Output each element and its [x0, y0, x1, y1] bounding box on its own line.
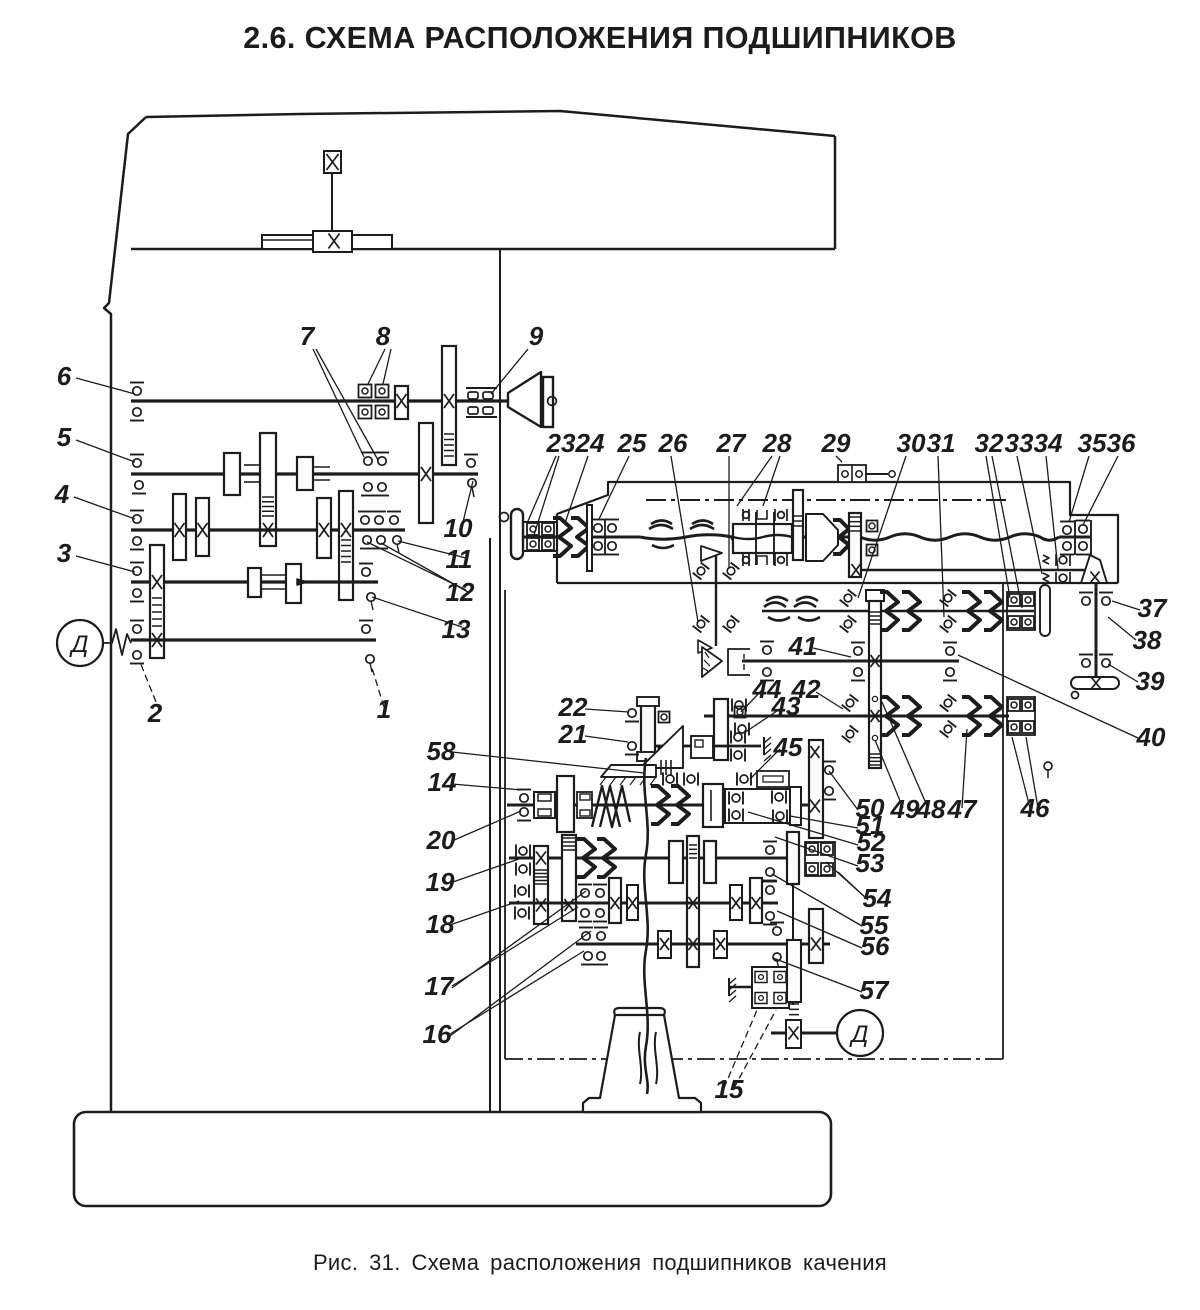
svg-text:17: 17 — [425, 971, 455, 1001]
svg-text:36: 36 — [1107, 428, 1136, 458]
svg-text:49: 49 — [890, 794, 920, 824]
svg-text:8: 8 — [376, 321, 391, 351]
svg-text:58: 58 — [427, 736, 456, 766]
svg-text:23: 23 — [546, 428, 576, 458]
svg-text:Д: Д — [69, 631, 89, 658]
svg-text:41: 41 — [788, 631, 818, 661]
svg-text:33: 33 — [1005, 428, 1034, 458]
svg-text:56: 56 — [861, 931, 890, 961]
svg-text:6: 6 — [57, 361, 72, 391]
svg-text:27: 27 — [716, 428, 747, 458]
svg-text:21: 21 — [558, 719, 588, 749]
svg-text:18: 18 — [426, 909, 455, 939]
svg-text:1: 1 — [377, 694, 391, 724]
svg-text:40: 40 — [1136, 722, 1166, 752]
svg-text:2.6. СХЕМА РАСПОЛОЖЕНИЯ ПОДШИП: 2.6. СХЕМА РАСПОЛОЖЕНИЯ ПОДШИПНИКОВ — [243, 21, 956, 55]
svg-text:7: 7 — [300, 321, 316, 351]
svg-text:3: 3 — [57, 538, 72, 568]
svg-text:30: 30 — [897, 428, 926, 458]
svg-text:4: 4 — [54, 479, 70, 509]
svg-text:19: 19 — [426, 867, 455, 897]
svg-text:44: 44 — [752, 674, 782, 704]
svg-text:48: 48 — [916, 794, 946, 824]
svg-text:35: 35 — [1078, 428, 1107, 458]
svg-text:45: 45 — [773, 732, 803, 762]
svg-text:13: 13 — [442, 614, 471, 644]
svg-text:39: 39 — [1136, 666, 1165, 696]
svg-text:57: 57 — [860, 975, 890, 1005]
svg-text:37: 37 — [1138, 593, 1168, 623]
svg-text:34: 34 — [1034, 428, 1063, 458]
svg-text:10: 10 — [444, 513, 473, 543]
svg-text:14: 14 — [428, 767, 457, 797]
svg-text:16: 16 — [423, 1019, 452, 1049]
svg-text:11: 11 — [446, 544, 473, 574]
svg-text:29: 29 — [821, 428, 851, 458]
svg-text:26: 26 — [658, 428, 688, 458]
svg-text:38: 38 — [1133, 625, 1162, 655]
svg-text:25: 25 — [617, 428, 647, 458]
svg-text:46: 46 — [1020, 793, 1050, 823]
svg-text:54: 54 — [863, 883, 892, 913]
svg-text:24: 24 — [575, 428, 605, 458]
svg-text:53: 53 — [856, 848, 885, 878]
svg-text:5: 5 — [57, 422, 72, 452]
svg-text:20: 20 — [426, 825, 456, 855]
svg-text:22: 22 — [558, 692, 588, 722]
svg-text:2: 2 — [147, 698, 163, 728]
svg-text:Рис. 31. Схема расположения по: Рис. 31. Схема расположения подшипников … — [313, 1250, 887, 1275]
svg-text:Д: Д — [849, 1021, 869, 1048]
svg-text:28: 28 — [762, 428, 792, 458]
svg-text:32: 32 — [975, 428, 1004, 458]
svg-text:9: 9 — [529, 321, 544, 351]
svg-text:31: 31 — [927, 428, 956, 458]
